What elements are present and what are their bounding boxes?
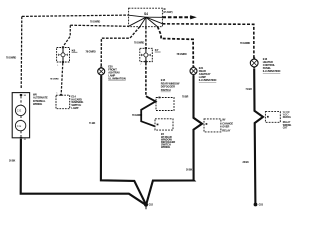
component W box far right <box>265 112 280 123</box>
svg-text:LAMP: LAMP <box>71 106 78 110</box>
arrow wire to right <box>162 16 190 18</box>
svg-text:C·E: C·E <box>17 109 22 113</box>
splice S4 box <box>129 8 163 27</box>
wire: x101 solid down to ground run <box>101 76 146 204</box>
lamp E21 on x193 wire <box>190 66 197 76</box>
E20 text <box>108 65 126 81</box>
wire: K7 down then into switch boxes <box>145 63 147 97</box>
component K7 boxed lamp <box>140 47 153 66</box>
svg-text:RELAY: RELAY <box>283 121 291 124</box>
svg-text:78 GN/RD: 78 GN/RD <box>90 22 100 24</box>
lamp E20 on x101 wire <box>98 66 105 76</box>
label right of splice box <box>163 9 173 14</box>
svg-text:78 GN/RD: 78 GN/RD <box>86 51 96 53</box>
component K6 boxed lamp <box>57 46 70 67</box>
E5 text below <box>161 132 175 149</box>
svg-text:K6: K6 <box>72 48 76 52</box>
svg-text:S4: S4 <box>144 12 148 16</box>
svg-text:OVER: OVER <box>222 125 229 129</box>
arrowhead <box>190 15 197 19</box>
lamp E16 on x254 wire <box>250 57 258 68</box>
W box text <box>222 117 233 132</box>
wire: top feed from left corner to splice box <box>22 15 129 16</box>
wire: x254 solid down with tap kink then to ground dot <box>254 69 263 204</box>
wire: drop from line2 corner to lamp unit K6 <box>64 25 71 45</box>
wire: left solid down to ground run <box>21 139 145 204</box>
svg-text:G53: G53 <box>259 205 264 207</box>
svg-text:WIRING: WIRING <box>33 102 42 106</box>
wire: long dashed to far right then down <box>162 24 254 59</box>
E16 text <box>263 57 281 73</box>
wire: left vertical drop (dashed) <box>20 16 23 88</box>
wire: splice diagonal to right-center branch <box>158 27 194 67</box>
K7 designator <box>155 48 161 52</box>
svg-text:78 GN/RD: 78 GN/RD <box>240 43 250 45</box>
wire: K6 down to switch E14 <box>61 63 63 94</box>
svg-text:78 GN/RD: 78 GN/RD <box>132 115 142 117</box>
K6 designator <box>72 48 78 52</box>
component E15 box (rear window defogger switch) <box>156 97 174 111</box>
svg-text:DEFOG: DEFOG <box>283 117 291 119</box>
wire: splice center drop to lamp unit K7 <box>145 27 147 48</box>
svg-text:ILLUMINATION: ILLUMINATION <box>108 77 126 81</box>
far right W box text <box>283 112 292 130</box>
svg-text:WIRING: WIRING <box>161 145 170 149</box>
svg-text:71 BK: 71 BK <box>89 123 96 125</box>
svg-text:26 BK: 26 BK <box>9 160 16 162</box>
svg-text:78 BR: 78 BR <box>182 96 189 98</box>
svg-text:78 GN/RD: 78 GN/RD <box>6 57 16 59</box>
svg-text:78 GN/RD: 78 GN/RD <box>177 54 187 56</box>
component E5 box (second switch) <box>155 119 173 130</box>
svg-text:26 BK: 26 BK <box>186 169 193 171</box>
W6 text <box>33 92 48 106</box>
E14 text <box>71 95 83 110</box>
E15 text above <box>161 78 180 92</box>
splice fan lines <box>129 15 163 27</box>
component E14 switch box <box>56 92 70 108</box>
svg-text:CKT: CKT <box>283 127 288 129</box>
E21 text <box>199 66 217 82</box>
svg-text:ILLUMINATION: ILLUMINATION <box>263 69 281 73</box>
ground node G52 <box>144 203 154 210</box>
svg-text:78 GN/RD: 78 GN/RD <box>134 42 144 44</box>
svg-text:26 BK: 26 BK <box>243 162 250 164</box>
svg-text:78 GN/RD: 78 GN/RD <box>50 78 59 80</box>
component W6 cluster (left, two bulbs) <box>12 93 29 142</box>
svg-text:71 BR: 71 BR <box>246 89 253 91</box>
wire labels <box>6 22 252 172</box>
svg-text:RELAY: RELAY <box>222 128 230 132</box>
svg-text:K7: K7 <box>155 48 159 52</box>
ground node G53 <box>254 203 264 207</box>
svg-text:ILLUMINATION: ILLUMINATION <box>199 78 217 82</box>
svg-text:W/: W/ <box>222 117 225 121</box>
wire: second feed line2 <box>70 25 129 26</box>
component W box right-center <box>204 119 221 132</box>
svg-text:G52: G52 <box>149 204 154 206</box>
wire: splice diagonal down-left to x101 branch <box>101 27 140 68</box>
wire: x193 solid down with tap kink into W box then ground run <box>146 76 202 204</box>
svg-text:C·E: C·E <box>17 124 22 128</box>
svg-text:SWITCH: SWITCH <box>161 88 171 92</box>
svg-text:(25 AMP): (25 AMP) <box>163 11 173 14</box>
